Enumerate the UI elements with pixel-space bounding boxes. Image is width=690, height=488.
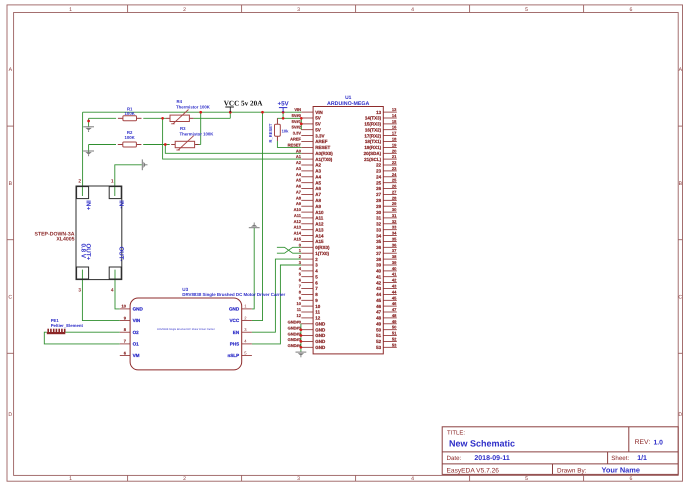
svg-text:A12: A12 bbox=[294, 219, 302, 224]
svg-text:22: 22 bbox=[392, 160, 397, 165]
svg-text:1: 1 bbox=[111, 179, 114, 185]
svg-text:Thermistor 100K: Thermistor 100K bbox=[180, 131, 215, 136]
svg-text:REV:: REV: bbox=[635, 439, 651, 446]
svg-text:A3: A3 bbox=[296, 166, 302, 171]
U1 right pin names bbox=[364, 110, 382, 350]
U3 right pin stubs bbox=[242, 309, 252, 356]
svg-text:3.3V: 3.3V bbox=[293, 131, 302, 136]
svg-text:3: 3 bbox=[78, 288, 81, 294]
svg-text:GND: GND bbox=[315, 333, 326, 338]
svg-text:A10: A10 bbox=[294, 207, 302, 212]
svg-text:2: 2 bbox=[183, 7, 186, 13]
svg-text:17(RX2): 17(RX2) bbox=[364, 133, 381, 138]
wire step-down OUT+ to U3 pin9 bbox=[82, 274, 119, 321]
wire +5V tie down to 5V#0 row bbox=[282, 112, 284, 118]
svg-text:1: 1 bbox=[69, 476, 72, 482]
svg-text:52: 52 bbox=[376, 339, 382, 344]
svg-text:52: 52 bbox=[392, 336, 397, 341]
U1 right pin stubs bbox=[383, 112, 397, 347]
svg-text:5V: 5V bbox=[315, 122, 321, 127]
svg-text:A1: A1 bbox=[296, 154, 302, 159]
svg-text:1/1: 1/1 bbox=[637, 454, 647, 462]
svg-text:34: 34 bbox=[392, 231, 397, 236]
svg-text:GND: GND bbox=[133, 307, 144, 312]
svg-text:GND: GND bbox=[315, 327, 326, 332]
svg-text:47: 47 bbox=[376, 310, 382, 315]
svg-text:AREF: AREF bbox=[315, 139, 328, 144]
svg-text:38: 38 bbox=[376, 257, 382, 262]
svg-text:A5: A5 bbox=[296, 178, 302, 183]
svg-text:42: 42 bbox=[392, 278, 397, 283]
svg-text:40: 40 bbox=[392, 266, 397, 271]
svg-text:25: 25 bbox=[376, 180, 382, 185]
svg-text:10: 10 bbox=[297, 301, 302, 306]
svg-text:32: 32 bbox=[392, 219, 397, 224]
svg-text:5V#2: 5V#2 bbox=[292, 125, 302, 130]
wire PE1 left terminal to U3 O1 pin7 bbox=[44, 332, 120, 344]
svg-text:R_RESET: R_RESET bbox=[268, 123, 273, 142]
resistor R1 100K bbox=[118, 116, 142, 121]
svg-text:4: 4 bbox=[411, 7, 414, 13]
wire R1 to R4 junction segment bbox=[143, 117, 166, 119]
title block REV divider bbox=[628, 427, 630, 452]
svg-text:19(RX1): 19(RX1) bbox=[364, 145, 381, 150]
svg-text:GND: GND bbox=[229, 307, 240, 312]
svg-text:31: 31 bbox=[376, 216, 382, 221]
svg-text:46: 46 bbox=[376, 304, 382, 309]
wire R1 row left end with ground stub bbox=[88, 118, 90, 127]
svg-text:29: 29 bbox=[392, 201, 397, 206]
svg-text:Sheet:: Sheet: bbox=[611, 455, 629, 462]
svg-text:A6: A6 bbox=[315, 186, 321, 191]
svg-text:15(RX3): 15(RX3) bbox=[364, 122, 381, 127]
svg-text:EN: EN bbox=[233, 330, 240, 335]
svg-text:Peltier_Element: Peltier_Element bbox=[51, 323, 84, 328]
svg-text:VIN: VIN bbox=[315, 110, 323, 115]
svg-text:28: 28 bbox=[376, 198, 382, 203]
wire R4 right lead to VCC stem bbox=[193, 117, 230, 119]
U3 right pin names bbox=[227, 307, 239, 359]
svg-text:10: 10 bbox=[122, 304, 127, 309]
wire R2 to R3 junction segment bbox=[143, 144, 170, 146]
svg-text:15: 15 bbox=[392, 119, 397, 124]
title block outline bbox=[442, 427, 678, 475]
svg-text:XL4005: XL4005 bbox=[56, 237, 74, 243]
svg-text:40: 40 bbox=[376, 269, 382, 274]
svg-text:27: 27 bbox=[392, 189, 397, 194]
svg-text:A1(TX0): A1(TX0) bbox=[315, 157, 333, 162]
svg-text:36: 36 bbox=[392, 242, 397, 247]
wire PE1 right terminal to U3 O2 pin8 bbox=[65, 331, 120, 333]
wire vertical row1 to R3 right lead bbox=[200, 112, 202, 144]
frame row ticks right bbox=[678, 125, 682, 127]
ground flag right of step-down IN- wire bbox=[142, 159, 147, 170]
svg-text:51: 51 bbox=[392, 331, 397, 336]
peltier PE1 element bbox=[47, 329, 66, 335]
svg-text:24: 24 bbox=[376, 175, 382, 180]
svg-text:35: 35 bbox=[392, 237, 397, 242]
wire U3 PHS pin4 to arduino pin 3 bbox=[252, 265, 301, 344]
svg-text:41: 41 bbox=[392, 272, 397, 277]
resistor R_RESET 10k bbox=[275, 118, 281, 141]
svg-text:A11: A11 bbox=[315, 216, 324, 221]
svg-text:6: 6 bbox=[629, 476, 632, 482]
wire U3 GND pin1 up to ground flag bbox=[252, 228, 254, 309]
wire R3 right lead to vertical bbox=[196, 144, 200, 146]
svg-text:A7: A7 bbox=[315, 192, 321, 197]
svg-text:21: 21 bbox=[392, 154, 397, 159]
svg-text:PHS: PHS bbox=[230, 342, 239, 347]
svg-text:11: 11 bbox=[315, 310, 320, 315]
svg-text:A8: A8 bbox=[296, 195, 302, 200]
svg-text:14: 14 bbox=[392, 113, 397, 118]
frame row ticks left bbox=[7, 125, 14, 127]
svg-text:37: 37 bbox=[392, 248, 397, 253]
svg-text:28: 28 bbox=[392, 195, 397, 200]
svg-text:A12: A12 bbox=[315, 222, 324, 227]
svg-text:TITLE:: TITLE: bbox=[447, 430, 465, 437]
svg-text:5V: 5V bbox=[315, 116, 321, 121]
svg-text:D: D bbox=[8, 412, 12, 418]
svg-text:5V: 5V bbox=[315, 127, 321, 132]
svg-text:A9: A9 bbox=[315, 204, 321, 209]
title block Sheet divider bbox=[607, 452, 609, 464]
svg-text:13: 13 bbox=[376, 110, 382, 115]
svg-text:+5V: +5V bbox=[278, 101, 290, 108]
svg-text:48: 48 bbox=[392, 313, 397, 318]
svg-text:GND: GND bbox=[315, 322, 326, 327]
svg-text:22: 22 bbox=[376, 163, 382, 168]
svg-text:3.3V: 3.3V bbox=[315, 133, 324, 138]
U3 left pin names bbox=[133, 307, 144, 359]
svg-text:OUT-: OUT- bbox=[117, 247, 124, 262]
svg-text:2018-09-11: 2018-09-11 bbox=[474, 455, 510, 462]
svg-text:49: 49 bbox=[392, 319, 397, 324]
wire U3 VCC pin2 up to VCC row bbox=[252, 112, 263, 320]
module pin wires into pads bbox=[81, 187, 83, 196]
ground flag above U3 GND wire bbox=[249, 223, 260, 228]
junction dot R3 left bbox=[164, 143, 167, 146]
ground flag below R1 row bbox=[83, 127, 94, 132]
svg-text:A11: A11 bbox=[294, 213, 302, 218]
wire U3 EN pin3 to arduino pin 2 bbox=[252, 259, 301, 332]
svg-text:A9: A9 bbox=[296, 201, 302, 206]
svg-text:43: 43 bbox=[392, 284, 397, 289]
svg-text:26: 26 bbox=[392, 184, 397, 189]
svg-text:O2: O2 bbox=[133, 330, 140, 335]
svg-text:38: 38 bbox=[392, 254, 397, 259]
svg-text:2: 2 bbox=[78, 179, 81, 185]
svg-text:29: 29 bbox=[376, 204, 382, 209]
svg-text:42: 42 bbox=[376, 280, 382, 285]
op-amp U1 ARDUINO-MEGA body bbox=[313, 107, 383, 354]
svg-text:21(SCL): 21(SCL) bbox=[364, 157, 382, 162]
svg-text:A14: A14 bbox=[294, 231, 302, 236]
svg-text:A2: A2 bbox=[315, 163, 321, 168]
svg-text:A: A bbox=[9, 67, 13, 73]
junction dots GND pin ties bbox=[300, 328, 303, 331]
svg-text:32: 32 bbox=[376, 222, 382, 227]
svg-text:44: 44 bbox=[376, 292, 382, 297]
svg-text:5: 5 bbox=[525, 7, 528, 13]
svg-text:3: 3 bbox=[297, 7, 300, 13]
svg-text:O1: O1 bbox=[133, 342, 140, 347]
svg-text:RESET: RESET bbox=[288, 142, 302, 147]
junction dot 5V#0 row at +5V stem bbox=[282, 117, 285, 120]
svg-text:48: 48 bbox=[376, 316, 382, 321]
svg-text:5: 5 bbox=[525, 476, 528, 482]
svg-text:New Schematic: New Schematic bbox=[449, 438, 515, 448]
U1 left pin names bbox=[315, 110, 333, 350]
svg-text:VIN: VIN bbox=[133, 318, 141, 323]
svg-text:10: 10 bbox=[315, 304, 321, 309]
svg-text:45: 45 bbox=[376, 298, 382, 303]
title block DrawnBy divider bbox=[552, 464, 554, 475]
svg-text:25: 25 bbox=[392, 178, 397, 183]
svg-text:50: 50 bbox=[392, 325, 397, 330]
svg-text:5V#0: 5V#0 bbox=[292, 113, 302, 118]
U1 left net labels bbox=[288, 107, 302, 348]
ground flag below R2 row bbox=[83, 151, 94, 156]
module U? STEP-DOWN-3A XL4005 body bbox=[76, 186, 122, 280]
svg-text:45: 45 bbox=[392, 295, 397, 300]
svg-text:Drawn By:: Drawn By: bbox=[557, 467, 587, 474]
svg-text:3: 3 bbox=[297, 476, 300, 482]
svg-text:0(RX0): 0(RX0) bbox=[315, 245, 330, 250]
svg-text:46: 46 bbox=[392, 301, 397, 306]
svg-text:4: 4 bbox=[111, 288, 114, 294]
svg-text:C: C bbox=[8, 295, 12, 301]
svg-text:EasyEDA V5.7.26: EasyEDA V5.7.26 bbox=[447, 467, 500, 474]
svg-text:10k: 10k bbox=[282, 128, 290, 133]
svg-text:23: 23 bbox=[392, 166, 397, 171]
svg-text:GND: GND bbox=[315, 339, 326, 344]
svg-text:VM: VM bbox=[133, 353, 140, 358]
ground flag below arduino GND pins bbox=[296, 352, 307, 357]
wire R_RESET bottom to RESET pin bbox=[277, 141, 301, 147]
svg-text:C: C bbox=[678, 295, 682, 301]
svg-text:1(TX0): 1(TX0) bbox=[315, 251, 329, 256]
svg-text:100K: 100K bbox=[124, 135, 135, 140]
wire step-down IN- to ground flag bbox=[115, 165, 142, 191]
svg-text:43: 43 bbox=[376, 286, 382, 291]
svg-text:A4: A4 bbox=[315, 175, 321, 180]
svg-text:A10: A10 bbox=[315, 210, 324, 215]
svg-text:DRV8838 Single Brushed DC Moto: DRV8838 Single Brushed DC Motor Driver C… bbox=[157, 328, 215, 331]
svg-text:A6: A6 bbox=[296, 184, 302, 189]
wire 5V pins tie vertical bbox=[300, 118, 302, 129]
svg-text:49: 49 bbox=[376, 322, 382, 327]
svg-text:GND#0: GND#0 bbox=[288, 320, 302, 325]
wire GND pins tie vertical bbox=[300, 324, 302, 352]
wire R2 row left end with ground stub bbox=[88, 145, 90, 154]
svg-text:A15: A15 bbox=[315, 239, 324, 244]
svg-text:A2: A2 bbox=[296, 160, 302, 165]
svg-text:A4: A4 bbox=[296, 172, 302, 177]
svg-text:A8: A8 bbox=[315, 198, 321, 203]
svg-text:33: 33 bbox=[392, 225, 397, 230]
wire VCC stem vertical bbox=[229, 112, 231, 118]
svg-text:GND: GND bbox=[315, 345, 326, 350]
svg-text:VIN: VIN bbox=[294, 107, 301, 112]
title block row lines bbox=[442, 451, 678, 453]
wire twisted pair crossover at pins 0 and 1 bbox=[277, 247, 301, 253]
svg-text:100K: 100K bbox=[125, 111, 136, 116]
svg-text:2: 2 bbox=[183, 476, 186, 482]
svg-text:51: 51 bbox=[376, 333, 382, 338]
U1 right net labels bbox=[392, 107, 397, 347]
svg-text:ARDUINO-MEGA: ARDUINO-MEGA bbox=[327, 101, 370, 107]
junction dot R1 ground stub bbox=[87, 120, 90, 123]
svg-text:6: 6 bbox=[629, 7, 632, 13]
svg-text:41: 41 bbox=[376, 274, 382, 279]
svg-text:B: B bbox=[9, 181, 13, 187]
wire 5V#0 row from R_RESET top bbox=[277, 117, 301, 119]
svg-text:A3: A3 bbox=[315, 169, 321, 174]
svg-text:DRV8838 Single Brushed DC Moto: DRV8838 Single Brushed DC Motor Driver C… bbox=[182, 292, 285, 297]
svg-text:B: B bbox=[679, 181, 683, 187]
svg-text:47: 47 bbox=[392, 307, 397, 312]
junction dots VCC row bbox=[199, 111, 202, 114]
frame column ticks top bbox=[127, 5, 129, 13]
svg-text:A0: A0 bbox=[296, 148, 302, 153]
svg-text:37: 37 bbox=[376, 251, 382, 256]
svg-text:VCC: VCC bbox=[229, 318, 239, 323]
svg-text:R4: R4 bbox=[177, 99, 183, 104]
svg-text:18(TX1): 18(TX1) bbox=[365, 139, 382, 144]
wire R3 junction down to A0 row bbox=[165, 145, 301, 154]
svg-text:20: 20 bbox=[392, 148, 397, 153]
svg-text:18: 18 bbox=[392, 137, 397, 142]
svg-text:1.0: 1.0 bbox=[654, 439, 664, 446]
svg-text:IN-: IN- bbox=[117, 200, 124, 208]
junction dots 5V pin ties bbox=[300, 117, 303, 120]
module corner pads bbox=[77, 187, 89, 199]
svg-text:A: A bbox=[679, 67, 683, 73]
svg-text:12: 12 bbox=[297, 313, 302, 318]
svg-text:17: 17 bbox=[392, 131, 397, 136]
svg-text:27: 27 bbox=[376, 192, 382, 197]
U1 left pin stubs bbox=[301, 112, 313, 347]
svg-text:A14: A14 bbox=[315, 233, 324, 238]
svg-text:23: 23 bbox=[376, 169, 382, 174]
svg-text:16(TX2): 16(TX2) bbox=[365, 127, 382, 132]
svg-text:0.8 V: 0.8 V bbox=[79, 244, 86, 259]
thermistor R3 Thermistor 100K bbox=[171, 136, 198, 150]
svg-text:14(TX3): 14(TX3) bbox=[365, 116, 382, 121]
svg-text:30: 30 bbox=[376, 210, 382, 215]
svg-text:VCC 5v 20A: VCC 5v 20A bbox=[224, 100, 264, 108]
svg-text:13: 13 bbox=[392, 107, 397, 112]
svg-text:D: D bbox=[678, 412, 682, 418]
power flag +5V bbox=[279, 108, 287, 113]
svg-text:1: 1 bbox=[69, 7, 72, 13]
wire left vertical to step-down IN+ bbox=[82, 112, 84, 191]
svg-text:35: 35 bbox=[376, 239, 382, 244]
svg-text:A15: A15 bbox=[294, 237, 302, 242]
svg-text:12: 12 bbox=[315, 316, 321, 321]
svg-text:RESET: RESET bbox=[315, 145, 330, 150]
junction dot R4 left bbox=[161, 117, 164, 120]
svg-text:31: 31 bbox=[392, 213, 397, 218]
power flag VCC 5v 20A bbox=[225, 107, 234, 112]
frame column ticks bottom bbox=[127, 475, 129, 481]
svg-text:53: 53 bbox=[376, 345, 382, 350]
svg-text:53: 53 bbox=[392, 342, 397, 347]
svg-text:4: 4 bbox=[411, 476, 414, 482]
svg-text:44: 44 bbox=[392, 289, 397, 294]
U3 right pin numbers bbox=[244, 304, 247, 356]
svg-text:A7: A7 bbox=[296, 189, 302, 194]
svg-text:IN+: IN+ bbox=[85, 200, 92, 210]
svg-text:Your Name: Your Name bbox=[602, 466, 640, 475]
svg-text:30: 30 bbox=[392, 207, 397, 212]
svg-text:A13: A13 bbox=[294, 225, 302, 230]
svg-text:36: 36 bbox=[376, 245, 382, 250]
U3 left pin numbers bbox=[122, 304, 127, 356]
svg-text:16: 16 bbox=[392, 125, 397, 130]
svg-text:nSLP: nSLP bbox=[227, 353, 239, 358]
thermistor R4 Thermistor 100K bbox=[166, 110, 193, 124]
svg-text:R3: R3 bbox=[180, 126, 186, 131]
svg-text:Date:: Date: bbox=[447, 455, 462, 462]
svg-text:AREF: AREF bbox=[290, 137, 301, 142]
svg-text:A5: A5 bbox=[315, 180, 321, 185]
svg-text:50: 50 bbox=[376, 327, 382, 332]
svg-text:A13: A13 bbox=[315, 227, 324, 232]
svg-text:A0(RX0): A0(RX0) bbox=[315, 151, 333, 156]
ic U3 DRV8838 body bbox=[130, 298, 242, 370]
svg-text:19: 19 bbox=[392, 142, 397, 147]
svg-text:34: 34 bbox=[376, 233, 382, 238]
svg-text:24: 24 bbox=[392, 172, 397, 177]
svg-text:Thermistor 100K: Thermistor 100K bbox=[176, 104, 211, 109]
U3 left pin stubs bbox=[120, 309, 130, 356]
wire VCC main row bbox=[83, 111, 302, 113]
svg-text:26: 26 bbox=[376, 186, 382, 191]
svg-text:33: 33 bbox=[376, 227, 382, 232]
wire step-down OUT- to U3 VIN... pin10 bbox=[115, 274, 120, 309]
wire R4 junction down to A1 row bbox=[163, 118, 302, 159]
resistor R2 100K bbox=[118, 142, 142, 147]
svg-text:39: 39 bbox=[376, 263, 382, 268]
svg-text:20(SDA): 20(SDA) bbox=[364, 151, 382, 156]
svg-text:39: 39 bbox=[392, 260, 397, 265]
